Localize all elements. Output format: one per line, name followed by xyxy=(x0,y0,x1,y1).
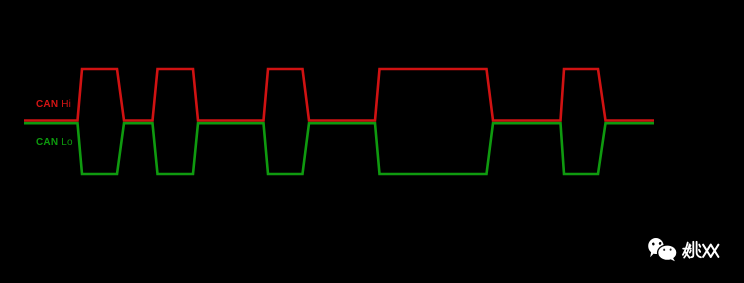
small bubble tail xyxy=(671,258,675,262)
watermark name 姚XX drawn as strokes xyxy=(683,242,701,258)
svg-text:CAN Hi: CAN Hi xyxy=(36,99,71,110)
glyph Yao: left radical (woman) xyxy=(683,243,688,255)
glyph Yao: right part (zhao) xyxy=(691,242,693,257)
small bubble xyxy=(657,244,678,261)
svg-text:CAN Lo: CAN Lo xyxy=(36,137,73,148)
big bubble xyxy=(648,238,663,254)
wire CAN Lo trace xyxy=(24,123,654,174)
small bubble eyes xyxy=(663,248,665,251)
wechat logo xyxy=(648,238,677,261)
letter X xyxy=(711,245,719,257)
wire CAN Hi trace xyxy=(24,69,654,121)
big bubble tail xyxy=(650,251,654,257)
big bubble eyes xyxy=(652,242,655,245)
letter X xyxy=(703,245,711,257)
